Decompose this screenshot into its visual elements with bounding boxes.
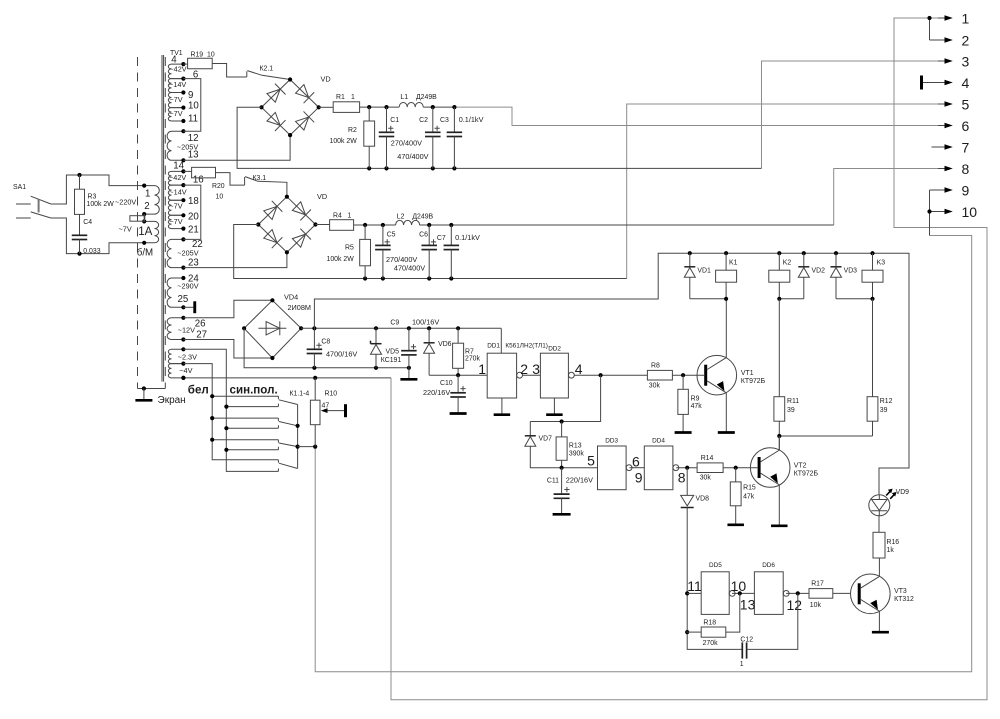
svg-text:DD5: DD5 (709, 562, 722, 569)
svg-text:R9: R9 (691, 396, 700, 403)
svg-text:R1: R1 (336, 94, 345, 101)
svg-text:23: 23 (188, 258, 199, 269)
svg-text:39: 39 (880, 407, 888, 414)
svg-text:VD3: VD3 (844, 268, 858, 275)
svg-text:26: 26 (195, 319, 206, 330)
svg-text:7: 7 (962, 140, 970, 156)
svg-text:2: 2 (144, 201, 149, 212)
svg-text:КС191: КС191 (381, 357, 402, 364)
svg-text:DD2: DD2 (548, 346, 561, 353)
svg-text:47k: 47k (691, 403, 703, 410)
svg-text:39: 39 (787, 407, 795, 414)
svg-text:VD: VD (317, 192, 327, 201)
svg-text:~7V: ~7V (169, 95, 182, 104)
svg-text:10: 10 (731, 578, 747, 594)
svg-text:390k: 390k (569, 451, 584, 458)
svg-text:10k: 10k (810, 602, 822, 609)
svg-text:~14V: ~14V (169, 80, 186, 89)
svg-text:КТ312: КТ312 (894, 596, 914, 603)
svg-text:K2: K2 (783, 260, 792, 267)
svg-text:6: 6 (193, 69, 198, 80)
svg-text:5: 5 (587, 453, 595, 469)
svg-text:~7V: ~7V (119, 225, 132, 234)
svg-text:C6: C6 (419, 231, 428, 238)
svg-text:Экран: Экран (158, 395, 186, 406)
svg-text:10: 10 (188, 101, 199, 112)
svg-text:8: 8 (678, 469, 686, 485)
svg-text:2: 2 (520, 361, 528, 377)
svg-text:100/16V: 100/16V (412, 317, 439, 326)
svg-text:бел: бел (188, 384, 209, 397)
svg-text:100k 2W: 100k 2W (87, 201, 115, 208)
svg-text:10: 10 (216, 193, 224, 200)
svg-text:R5: R5 (345, 245, 354, 252)
svg-text:VT1: VT1 (741, 370, 754, 377)
svg-text:0.1/1kV: 0.1/1kV (455, 233, 480, 242)
svg-text:КТ972Б: КТ972Б (741, 378, 766, 385)
svg-text:0.033: 0.033 (83, 248, 100, 255)
svg-text:~7V: ~7V (169, 217, 182, 226)
svg-text:SA1: SA1 (13, 184, 26, 191)
svg-text:R13: R13 (569, 442, 582, 449)
svg-text:6: 6 (632, 453, 640, 469)
svg-text:30k: 30k (700, 475, 712, 482)
svg-text:~205V: ~205V (177, 143, 198, 152)
svg-text:12: 12 (787, 597, 803, 613)
svg-text:C12: C12 (740, 637, 753, 644)
svg-text:1k: 1k (887, 547, 895, 554)
svg-text:C5: C5 (387, 231, 396, 238)
svg-text:16: 16 (193, 174, 204, 185)
svg-text:9: 9 (635, 469, 643, 485)
svg-text:21: 21 (188, 224, 199, 235)
svg-text:~42V: ~42V (169, 173, 186, 182)
svg-text:14: 14 (173, 161, 184, 172)
svg-text:~14V: ~14V (169, 188, 186, 197)
svg-text:L1: L1 (400, 94, 408, 101)
svg-text:R7: R7 (465, 348, 474, 355)
svg-text:4700/16V: 4700/16V (326, 349, 357, 358)
svg-text:б/М: б/М (137, 248, 153, 259)
svg-text:3: 3 (962, 54, 970, 70)
svg-text:9: 9 (962, 183, 970, 199)
svg-text:R18: R18 (703, 620, 716, 627)
svg-text:6: 6 (962, 118, 970, 134)
svg-text:VD2: VD2 (812, 268, 826, 275)
svg-text:VT2: VT2 (794, 463, 807, 470)
svg-text:47k: 47k (743, 494, 755, 501)
svg-text:1: 1 (351, 94, 355, 101)
svg-text:C7: C7 (437, 235, 446, 242)
svg-text:~4V: ~4V (179, 366, 192, 375)
svg-text:220/16V: 220/16V (566, 475, 593, 484)
svg-text:R12: R12 (880, 398, 893, 405)
svg-text:2: 2 (962, 33, 970, 49)
svg-text:27: 27 (196, 330, 207, 341)
svg-text:1: 1 (740, 661, 744, 668)
svg-text:220/16V: 220/16V (423, 388, 450, 397)
svg-text:R14: R14 (701, 455, 714, 462)
svg-text:~42V: ~42V (169, 65, 186, 74)
svg-text:VD7: VD7 (539, 435, 553, 442)
svg-text:8: 8 (962, 161, 970, 177)
svg-text:C4: C4 (83, 219, 92, 226)
svg-text:Д249В: Д249В (412, 214, 433, 221)
svg-text:~290V: ~290V (177, 282, 198, 291)
svg-text:R20: R20 (212, 183, 225, 190)
svg-text:К3.1: К3.1 (253, 175, 267, 182)
svg-text:VD1: VD1 (697, 268, 711, 275)
svg-text:11: 11 (687, 578, 702, 594)
svg-text:~220V: ~220V (115, 198, 136, 207)
svg-text:R3: R3 (88, 193, 97, 200)
svg-text:R2: R2 (348, 127, 357, 134)
svg-text:470/400V: 470/400V (394, 263, 425, 272)
svg-text:13: 13 (740, 596, 756, 612)
svg-text:47: 47 (322, 403, 330, 410)
svg-text:1: 1 (348, 213, 352, 220)
svg-text:VD5: VD5 (386, 349, 400, 356)
svg-text:2И08М: 2И08М (288, 303, 312, 312)
svg-text:DD3: DD3 (605, 437, 618, 444)
svg-text:DD1: DD1 (487, 343, 500, 350)
svg-text:R16: R16 (887, 539, 900, 546)
svg-text:R11: R11 (787, 398, 799, 405)
svg-text:100k 2W: 100k 2W (330, 138, 358, 145)
svg-text:C3: C3 (440, 117, 449, 124)
svg-text:18: 18 (188, 196, 199, 207)
svg-text:К561ЛН2(ТЛ1): К561ЛН2(ТЛ1) (505, 343, 548, 350)
svg-text:5: 5 (962, 97, 970, 113)
svg-text:L2: L2 (397, 214, 405, 221)
svg-text:K3: K3 (877, 260, 886, 267)
svg-text:100k 2W: 100k 2W (327, 256, 355, 263)
svg-text:~12V: ~12V (178, 325, 195, 334)
svg-text:К1.1-4: К1.1-4 (290, 390, 310, 397)
svg-text:R8: R8 (651, 363, 660, 370)
svg-text:25: 25 (178, 294, 189, 305)
svg-text:470/400V: 470/400V (397, 152, 428, 161)
svg-text:R15: R15 (743, 485, 756, 492)
svg-text:К2.1: К2.1 (260, 65, 274, 72)
svg-text:1: 1 (962, 11, 970, 27)
svg-text:1: 1 (478, 361, 486, 377)
svg-text:9: 9 (188, 90, 193, 101)
svg-text:VD9: VD9 (896, 489, 910, 496)
svg-text:R4: R4 (333, 213, 342, 220)
svg-text:0.1/1kV: 0.1/1kV (459, 115, 484, 124)
svg-text:3: 3 (532, 361, 540, 377)
svg-text:VD6: VD6 (438, 341, 452, 348)
svg-text:КТ972Б: КТ972Б (794, 470, 819, 477)
svg-text:11: 11 (188, 113, 198, 124)
svg-text:~7V: ~7V (169, 202, 182, 211)
svg-text:C8: C8 (321, 339, 330, 346)
svg-text:10: 10 (207, 52, 215, 59)
svg-text:R10: R10 (325, 390, 338, 397)
svg-text:~7V: ~7V (169, 109, 182, 118)
svg-text:VT3: VT3 (894, 588, 907, 595)
svg-text:C1: C1 (390, 117, 399, 124)
svg-text:Д249В: Д249В (416, 94, 437, 101)
svg-text:C9: C9 (390, 319, 399, 326)
svg-text:DD4: DD4 (652, 437, 665, 444)
svg-text:син.пол.: син.пол. (230, 384, 278, 397)
svg-text:VD8: VD8 (696, 495, 710, 502)
svg-text:K1: K1 (729, 260, 738, 267)
svg-text:~2.3V: ~2.3V (178, 352, 197, 361)
svg-text:C10: C10 (440, 380, 453, 387)
svg-text:VD4: VD4 (284, 293, 298, 302)
svg-text:20: 20 (188, 212, 199, 223)
svg-text:10: 10 (962, 204, 978, 220)
svg-text:4: 4 (962, 75, 970, 91)
svg-text:~205V: ~205V (177, 249, 198, 258)
svg-text:270/400V: 270/400V (391, 138, 422, 147)
svg-text:R17: R17 (811, 580, 824, 587)
svg-text:DD6: DD6 (762, 562, 775, 569)
svg-text:C2: C2 (419, 117, 428, 124)
svg-text:1: 1 (145, 189, 150, 200)
svg-text:30k: 30k (649, 383, 661, 390)
svg-text:270k: 270k (703, 640, 718, 647)
svg-text:VD: VD (321, 75, 331, 84)
svg-text:4: 4 (575, 361, 583, 377)
svg-text:1А: 1А (138, 226, 152, 238)
svg-text:R19: R19 (191, 52, 204, 59)
svg-text:C11: C11 (547, 477, 559, 484)
